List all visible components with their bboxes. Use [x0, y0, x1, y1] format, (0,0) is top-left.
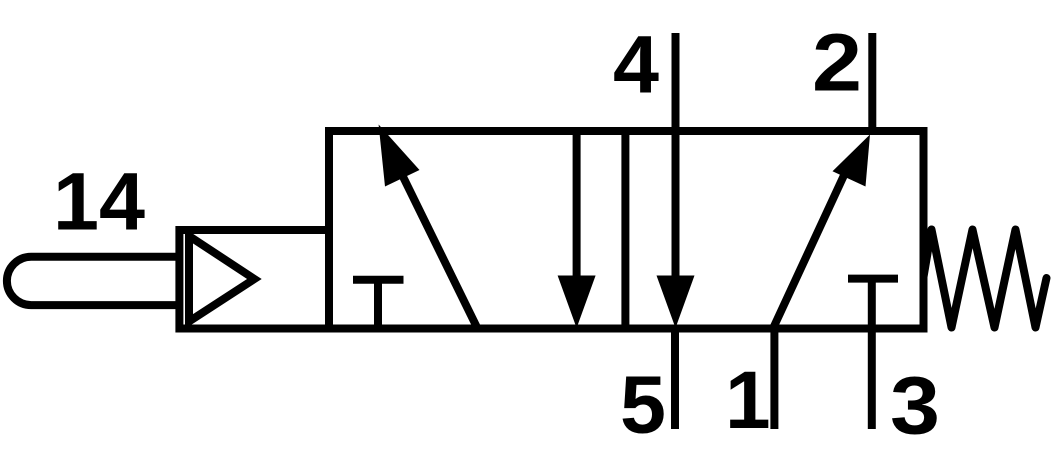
- pilot triangle: [189, 236, 254, 322]
- blocked port T (left square, port 5): [353, 280, 404, 329]
- svg-text:1: 1: [725, 355, 771, 446]
- blocked port T (right square, port 3): [848, 279, 898, 329]
- port 1 line: [770, 329, 778, 430]
- svg-text:4: 4: [613, 20, 659, 111]
- diagonal arrow 1 to 4 (left square): [379, 125, 478, 329]
- port 5 line: [671, 329, 679, 430]
- down arrow 2 to 3 (left square): [558, 131, 596, 328]
- pilot box: [179, 230, 329, 329]
- return spring: [924, 230, 1047, 328]
- pilot plunger capsule (port 14 actuator): [7, 257, 179, 305]
- diagonal arrow 1 to 2 (right square): [773, 135, 870, 329]
- port 2 line: [868, 33, 876, 131]
- svg-text:14: 14: [53, 157, 145, 248]
- port 3 line: [868, 329, 876, 430]
- svg-text:2: 2: [812, 18, 862, 109]
- valve body outline: [329, 131, 924, 329]
- svg-text:3: 3: [890, 361, 940, 452]
- svg-text:5: 5: [620, 360, 666, 451]
- down arrow 4 to 5 (right square) with port 4 line: [657, 33, 695, 328]
- divider between squares: [621, 131, 629, 329]
